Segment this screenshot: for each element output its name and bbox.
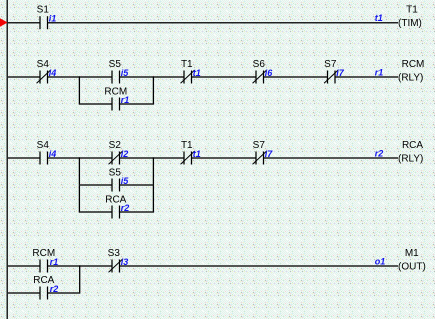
svg-text:t1: t1 bbox=[193, 149, 201, 159]
contact RCA (NO) bbox=[112, 206, 120, 219]
svg-text:r2: r2 bbox=[50, 284, 59, 294]
svg-text:r2: r2 bbox=[121, 203, 130, 213]
rung 1 wire (S1 to T1 coil) bbox=[48, 22, 399, 24]
svg-text:(RLY): (RLY) bbox=[398, 153, 423, 164]
svg-text:i4: i4 bbox=[49, 149, 57, 159]
rung 3 wire (S7 to RCA coil) bbox=[264, 157, 399, 159]
rung 3 branch 1 wire (left to S5) bbox=[79, 184, 112, 186]
rung 3 wire (S2 to T1) bbox=[120, 157, 185, 159]
svg-text:S4: S4 bbox=[37, 59, 50, 70]
rung 2 branch wire (RCM to right) bbox=[120, 103, 154, 105]
svg-text:S5: S5 bbox=[109, 59, 122, 70]
rung 4 branch wire (rail to RCA) bbox=[7, 292, 40, 294]
svg-text:RCA: RCA bbox=[402, 140, 423, 151]
svg-text:r1: r1 bbox=[375, 67, 384, 77]
svg-text:r2: r2 bbox=[375, 148, 384, 158]
rung 1 wire (rail to S1) bbox=[7, 22, 40, 24]
rung 2 branch right vertical bbox=[152, 76, 154, 104]
contact S6 (NC) bbox=[253, 70, 267, 83]
rung 2 wire (T1 to S6) bbox=[192, 76, 257, 78]
svg-text:T1: T1 bbox=[181, 59, 193, 70]
rung 3 wire (S4 to S2) bbox=[48, 157, 113, 159]
contact S2 (NC) bbox=[109, 151, 123, 164]
contact T1 (NC) bbox=[181, 151, 195, 164]
left power rail bbox=[6, 0, 8, 319]
rung 3 branch 2 wire (RCA to right) bbox=[120, 211, 154, 213]
rung 2 wire (S4 to S5) bbox=[48, 76, 113, 78]
rung 3 branch right vertical bbox=[152, 157, 154, 212]
svg-text:RCM: RCM bbox=[402, 59, 425, 70]
svg-text:S7: S7 bbox=[324, 59, 337, 70]
contact S4 (NO) bbox=[40, 152, 48, 165]
svg-text:M1: M1 bbox=[405, 248, 419, 259]
rung 2 wire (S6 to S7) bbox=[264, 76, 328, 78]
svg-text:i5: i5 bbox=[121, 176, 130, 186]
rung 3 branch 1 wire (S5 to right) bbox=[120, 184, 154, 186]
svg-text:o1: o1 bbox=[375, 256, 386, 266]
rung 3 branch 2 wire (left to RCA) bbox=[79, 211, 112, 213]
rung 4 branch wire (RCA to right) bbox=[48, 292, 80, 294]
svg-text:i2: i2 bbox=[121, 149, 129, 159]
svg-text:i3: i3 bbox=[121, 257, 129, 267]
svg-text:i5: i5 bbox=[121, 68, 130, 78]
svg-text:i4: i4 bbox=[49, 68, 57, 78]
rung 4 branch right vertical bbox=[79, 265, 81, 293]
svg-text:(OUT): (OUT) bbox=[398, 261, 426, 272]
contact T1 (NC) bbox=[181, 70, 195, 83]
svg-text:t1: t1 bbox=[375, 13, 383, 23]
contact S1 (NO) bbox=[40, 16, 48, 29]
contact RCA (NO) bbox=[40, 287, 48, 300]
svg-text:S4: S4 bbox=[37, 140, 50, 151]
rung 2 branch wire (left to RCM) bbox=[79, 103, 112, 105]
svg-text:i7: i7 bbox=[265, 149, 274, 159]
contact RCM (NO) bbox=[112, 98, 120, 111]
svg-text:(TIM): (TIM) bbox=[398, 18, 422, 29]
contact S7 (NC) bbox=[324, 70, 338, 83]
contact S5 (NO) bbox=[112, 179, 120, 192]
contact S3 (NC) bbox=[109, 259, 123, 272]
rung 3 branch left vertical bbox=[78, 157, 80, 212]
svg-text:S6: S6 bbox=[253, 59, 266, 70]
svg-text:S5: S5 bbox=[109, 168, 122, 179]
svg-text:S1: S1 bbox=[37, 4, 50, 15]
rung 4 wire (S3 to M1 coil) bbox=[120, 265, 399, 267]
rung 4 wire (rail to RCM) bbox=[7, 265, 40, 267]
svg-text:(RLY): (RLY) bbox=[398, 72, 423, 83]
rung 2 branch left vertical bbox=[78, 76, 80, 104]
rung 2 wire (S5 to T1) bbox=[120, 76, 185, 78]
svg-text:i7: i7 bbox=[336, 68, 345, 78]
svg-text:S2: S2 bbox=[109, 140, 122, 151]
svg-text:T1: T1 bbox=[406, 4, 418, 15]
rung 2 wire (S7 to RCM coil) bbox=[335, 76, 398, 78]
rung 3 wire (rail to S4) bbox=[7, 157, 40, 159]
svg-text:r1: r1 bbox=[121, 95, 130, 105]
rung 4 wire (RCM to S3) bbox=[48, 265, 113, 267]
svg-text:t1: t1 bbox=[193, 68, 201, 78]
rung 3 wire (T1 to S7) bbox=[192, 157, 257, 159]
svg-text:S7: S7 bbox=[253, 140, 266, 151]
svg-text:S3: S3 bbox=[108, 248, 121, 259]
contact S7 (NC) bbox=[253, 151, 267, 164]
contact S5 (NO) bbox=[112, 71, 120, 84]
svg-text:i6: i6 bbox=[265, 68, 274, 78]
contact RCM (NO) bbox=[40, 260, 48, 273]
cursor arrow at rung 1 bbox=[0, 18, 8, 26]
svg-text:i1: i1 bbox=[49, 13, 57, 23]
svg-text:r1: r1 bbox=[50, 257, 59, 267]
rung 2 wire (rail to S4) bbox=[7, 76, 40, 78]
contact S4 (NC) bbox=[37, 70, 51, 83]
svg-text:T1: T1 bbox=[181, 140, 193, 151]
